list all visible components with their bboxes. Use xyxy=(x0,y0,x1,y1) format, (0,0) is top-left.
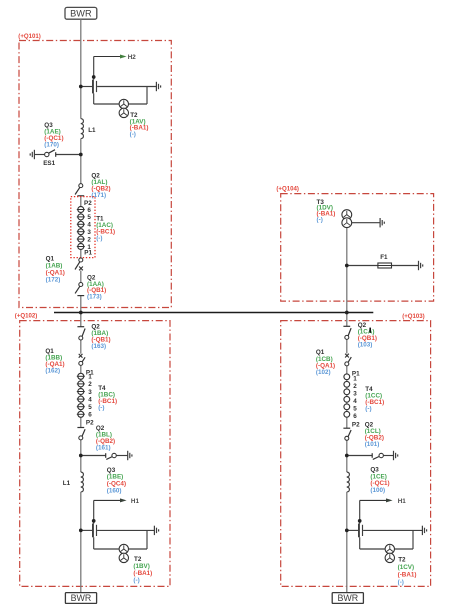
disconnector Q2 (+Q102 upper) circle xyxy=(79,336,83,340)
ground (+Q103 surge branch) xyxy=(422,526,426,535)
svg-text:3: 3 xyxy=(87,229,91,236)
wire +Q101 capacitor to ground xyxy=(97,86,156,88)
earthing switch Q3 (+Q103) wire xyxy=(347,455,372,457)
disconnector Q2 (+Q102 upper) blade xyxy=(82,329,85,337)
svg-text:(-): (-) xyxy=(398,579,404,586)
svg-text:P2: P2 xyxy=(352,421,360,428)
capacitor C (+Q101) thick plate xyxy=(92,80,94,94)
capacitor C (+Q103) thick plate xyxy=(358,524,360,538)
svg-text:(-): (-) xyxy=(133,577,139,584)
wire +Q102 T2 loop left xyxy=(93,537,95,549)
svg-text:(101): (101) xyxy=(365,441,380,448)
earthing switch Q3 (+Q103) tick xyxy=(371,453,373,458)
wire +Q101 T2 loop bottom xyxy=(94,103,147,105)
svg-text:5: 5 xyxy=(88,404,92,411)
svg-text:H2: H2 xyxy=(128,54,137,61)
svg-text:4: 4 xyxy=(88,396,92,403)
junction Q3 node (+Q103) xyxy=(345,454,349,458)
junction +Q101 capacitor node xyxy=(79,85,83,89)
junction bus / left feeder xyxy=(79,311,83,315)
ground (F1) xyxy=(419,261,423,270)
wire left feeder (+Q102 Q2 circle to X) xyxy=(80,338,82,354)
signal arrow H2 xyxy=(94,56,120,58)
svg-text:(-): (-) xyxy=(365,406,371,413)
ground (ES1) xyxy=(30,150,34,159)
svg-text:P2: P2 xyxy=(86,420,94,427)
junction ES1 node xyxy=(79,153,83,157)
wire +Q101 T2 loop left xyxy=(93,93,95,104)
wire +Q103 signal tap vertical xyxy=(359,500,361,523)
svg-text:(1CV): (1CV) xyxy=(398,564,414,571)
earthing switch ES1 contact tick xyxy=(55,152,57,157)
node BWR (bottom right) xyxy=(332,593,363,604)
ground (Q3 +Q102) xyxy=(128,451,132,460)
wire Q3 to ground (+Q103) xyxy=(383,455,393,457)
svg-text:6: 6 xyxy=(353,413,357,420)
svg-text:(171): (171) xyxy=(91,192,106,199)
disconnector Q2 (+Q103 upper) circle xyxy=(345,335,349,339)
wire +Q102 capacitor feed xyxy=(81,529,92,531)
svg-text:ES1: ES1 xyxy=(43,160,55,167)
wire +Q101 signal tap vertical xyxy=(93,57,95,80)
svg-text:5: 5 xyxy=(353,405,357,412)
junction +Q101 tap node xyxy=(92,75,96,79)
disconnector Q2 (+Q103 upper) blade xyxy=(348,328,351,336)
transformer T2 (+Q103) upper winding xyxy=(385,544,394,553)
junction +Q102 capacitor node xyxy=(79,529,83,533)
wire +Q102 T2 loop right xyxy=(146,530,148,549)
svg-text:(160): (160) xyxy=(107,487,122,494)
earthing switch ES1 pivot circle xyxy=(45,152,49,156)
svg-text:(-): (-) xyxy=(96,235,102,242)
ground (+Q101 surge branch) xyxy=(156,82,160,91)
tap circle T4 pin 3 (+Q103) xyxy=(344,389,350,395)
fuse F1 element line xyxy=(378,265,392,267)
svg-text:(+Q104): (+Q104) xyxy=(276,185,299,192)
svg-text:1: 1 xyxy=(353,375,357,382)
tap circle T1 pin 5 xyxy=(78,214,84,220)
ground (T3) xyxy=(380,218,384,227)
tap circle T4 pin 2 (+Q103) xyxy=(344,381,350,387)
svg-text:(103): (103) xyxy=(358,342,373,349)
wire right feeder (T3 to bus) xyxy=(346,227,348,326)
zone box +Q103 xyxy=(281,321,431,587)
earthing switch Q3 (+Q102) blade xyxy=(106,457,112,460)
svg-text:L1: L1 xyxy=(63,480,71,487)
svg-text:2: 2 xyxy=(88,381,92,388)
wire +Q102 capacitor to ground xyxy=(97,529,154,531)
wire +Q103 T2 loop left xyxy=(359,537,361,549)
svg-text:2: 2 xyxy=(353,383,357,390)
wire left feeder (Q1 X to Q2) xyxy=(80,271,82,285)
zone box +Q101 xyxy=(19,41,171,308)
disconnector Q2 (+Q103 upper) terminal xyxy=(343,325,350,327)
svg-text:4: 4 xyxy=(353,398,357,405)
capacitor C (+Q103) thin plate xyxy=(362,525,364,536)
junction F1 node xyxy=(345,264,349,268)
transformer T2 (+Q101) lower winding xyxy=(119,108,128,117)
zone box +Q102 xyxy=(20,321,170,587)
junction Q3 node (+Q102) xyxy=(79,454,83,458)
wire +Q103 capacitor to ground xyxy=(363,529,422,531)
circuit breaker Q1 (+Q102) blade xyxy=(82,357,85,362)
tap circle T4 pin 1 (+Q102) xyxy=(78,373,84,379)
junction +Q103 tap node xyxy=(358,519,362,523)
tap circle T4 pin 6 (+Q103) xyxy=(344,411,350,417)
svg-text:6: 6 xyxy=(87,207,91,214)
svg-text:5: 5 xyxy=(87,214,91,221)
disconnector Q2 (+Q101 lower) circle xyxy=(79,283,83,287)
svg-text:(-): (-) xyxy=(98,405,104,412)
circuit breaker Q1 (+Q102) X contact xyxy=(79,354,83,358)
disconnector Q2 (+Q102 lower) circle xyxy=(79,436,83,440)
svg-text:(163): (163) xyxy=(91,343,106,350)
svg-text:2: 2 xyxy=(87,236,91,243)
wire +Q103 T2 loop right xyxy=(412,530,414,549)
tap circle T4 pin 5 (+Q102) xyxy=(78,404,84,410)
ground (+Q102 surge branch) xyxy=(154,526,158,535)
transformer T2 (+Q101) upper winding xyxy=(119,99,128,108)
transformer T3 upper winding xyxy=(342,210,352,220)
tap circle T4 pin 6 (+Q102) xyxy=(78,411,84,417)
inductor L1 (+Q102) xyxy=(81,472,84,492)
earthing switch Q3 (+Q103) circle xyxy=(379,453,383,457)
signal arrow H1 xyxy=(94,499,120,501)
svg-text:(+Q101): (+Q101) xyxy=(18,33,41,40)
earthing switch Q3 (+Q102) tick xyxy=(105,453,107,458)
wire +Q102 signal tap vertical xyxy=(93,500,95,523)
disconnector Q2 (+Q103 lower) terminal xyxy=(343,427,350,429)
svg-text:1: 1 xyxy=(87,244,91,251)
wire left feeder (Q2 to bus and +Q102 Q2) xyxy=(80,296,82,327)
plug box P2/P1 (dotted) xyxy=(71,197,95,258)
svg-text:3: 3 xyxy=(88,389,92,396)
svg-text:H1: H1 xyxy=(398,498,407,505)
circuit breaker Q1 (+Q101) circle xyxy=(79,258,83,262)
wire +Q103 T2 loop bottom xyxy=(360,548,413,550)
circuit breaker Q1 (+Q102) circle xyxy=(79,361,83,365)
svg-text:3: 3 xyxy=(353,390,357,397)
svg-text:H1: H1 xyxy=(131,498,140,505)
disconnector Q2 (+Q102 upper) terminal xyxy=(77,326,84,328)
wire right feeder (+Q103 Q2 circle to X) xyxy=(346,337,348,353)
svg-text:(172): (172) xyxy=(46,277,61,284)
disconnector Q2 (+Q101 lower) terminal xyxy=(77,295,84,297)
tap circle T1 pin 6 xyxy=(78,207,84,213)
svg-text:(-): (-) xyxy=(317,217,323,224)
circuit breaker Q1 (+Q101) X contact xyxy=(79,267,83,271)
junction +Q103 capacitor node xyxy=(345,529,349,533)
svg-text:1: 1 xyxy=(88,374,92,381)
tap circle T1 pin 1 xyxy=(78,244,84,250)
svg-text:(102): (102) xyxy=(316,369,331,376)
earthing switch ES1 blade xyxy=(49,150,55,154)
earthing switch ES1 wire from feeder xyxy=(56,154,81,156)
wire right feeder (+Q103 Q1 to winding and Q2) xyxy=(346,364,348,428)
wire left feeder (BWR to L1) xyxy=(80,19,82,118)
svg-text:4: 4 xyxy=(87,222,91,229)
svg-text:(-): (-) xyxy=(130,131,136,138)
node BWR (top) xyxy=(65,7,97,19)
transformer T2 (+Q102) upper winding xyxy=(119,544,128,553)
svg-text:BWR: BWR xyxy=(70,9,92,19)
disconnector Q2 (+Q103 lower) blade xyxy=(348,430,351,437)
wire left feeder (L1 to Q2) xyxy=(80,139,82,186)
node BWR (bottom left) xyxy=(65,593,96,604)
wire left feeder (+Q102 Q1 to winding and Q2) xyxy=(80,363,82,427)
tap circle T4 pin 1 (+Q103) xyxy=(344,374,350,380)
wire right feeder (coil to bottom BWR) xyxy=(346,492,348,593)
inductor L (+Q103) xyxy=(347,472,350,492)
wire +Q101 T2 loop right xyxy=(146,87,148,105)
svg-text:(-BA1): (-BA1) xyxy=(398,571,417,578)
disconnector Q2 (+Q101 upper) circle xyxy=(79,184,83,188)
wire left feeder (L1 to bottom BWR) xyxy=(80,492,82,593)
stray mark near (1CA) xyxy=(369,328,371,333)
svg-text:(1AB): (1AB) xyxy=(46,263,63,270)
transformer T2 (+Q102) lower winding xyxy=(119,553,128,562)
ground (Q3 +Q103) xyxy=(394,451,398,460)
wire +Q102 T2 loop bottom xyxy=(94,548,147,550)
svg-text:(+Q103): (+Q103) xyxy=(402,313,425,320)
svg-text:L1: L1 xyxy=(88,127,96,134)
junction +Q102 tap node xyxy=(92,519,96,523)
tap circle T4 pin 4 (+Q102) xyxy=(78,396,84,402)
inductor L1 (+Q101) xyxy=(81,119,84,139)
svg-text:T2: T2 xyxy=(398,556,406,563)
disconnector Q2 (+Q102 lower) blade xyxy=(82,429,85,436)
disconnector Q2 (+Q101 lower) blade xyxy=(75,286,80,293)
svg-text:F1: F1 xyxy=(380,254,388,261)
svg-text:T2: T2 xyxy=(134,556,142,563)
svg-text:(173): (173) xyxy=(87,294,102,301)
capacitor C (+Q102) thick plate xyxy=(92,524,94,538)
wire left feeder (Q2 to Q1) xyxy=(80,196,82,260)
svg-text:BWR: BWR xyxy=(337,593,358,603)
svg-text:(-QA1): (-QA1) xyxy=(46,270,65,277)
transformer T3 lower winding xyxy=(342,218,352,228)
tap circle T1 pin 3 xyxy=(78,229,84,235)
svg-text:(162): (162) xyxy=(45,367,60,374)
svg-text:(-BA1): (-BA1) xyxy=(133,570,152,577)
svg-text:(1BV): (1BV) xyxy=(133,563,149,570)
earthing switch Q3 (+Q103) blade xyxy=(373,457,379,460)
fuse F1 body xyxy=(378,263,392,268)
earthing switch Q3 (+Q102) wire xyxy=(81,455,106,457)
wire F1 branch xyxy=(347,265,419,267)
wire left feeder (+Q102 Q2 to L1 coil) xyxy=(80,438,82,472)
earthing switch Q3 (+Q102) circle xyxy=(112,453,116,457)
wire right feeder (+Q103 Q2 to coil) xyxy=(346,438,348,472)
tap circle T4 pin 2 (+Q102) xyxy=(78,381,84,387)
bus wire (horizontal tie) xyxy=(54,312,373,314)
capacitor C (+Q101) thin plate xyxy=(96,81,98,92)
tap circle T4 pin 3 (+Q102) xyxy=(78,389,84,395)
svg-text:(100): (100) xyxy=(370,487,385,494)
svg-text:(170): (170) xyxy=(44,142,59,149)
wire +Q101 capacitor feed xyxy=(81,86,92,88)
circuit breaker Q1 (+Q103) circle xyxy=(345,362,349,366)
circuit breaker Q1 (+Q103) X contact xyxy=(345,354,349,358)
disconnector Q2 (+Q103 lower) circle xyxy=(345,436,349,440)
wire Q3 to ground (+Q102) xyxy=(116,455,127,457)
svg-text:(+Q102): (+Q102) xyxy=(15,313,38,320)
circuit breaker Q1 (+Q103) blade xyxy=(348,357,351,362)
wire ES1 to ground xyxy=(34,154,44,156)
tap circle T4 pin 4 (+Q103) xyxy=(344,396,350,402)
disconnector Q2 (+Q102 lower) terminal xyxy=(77,427,84,429)
signal arrow H1 xyxy=(360,499,386,501)
disconnector Q2 (+Q101 upper) terminal xyxy=(77,195,84,197)
svg-text:(161): (161) xyxy=(96,444,111,451)
disconnector Q2 (+Q101 upper) blade xyxy=(75,187,80,194)
transformer T2 (+Q103) lower winding xyxy=(385,553,394,562)
tap circle T4 pin 5 (+Q103) xyxy=(344,404,350,410)
wire +Q103 capacitor feed xyxy=(347,529,358,531)
svg-text:Q1: Q1 xyxy=(46,256,55,263)
svg-text:6: 6 xyxy=(88,412,92,419)
tap circle T1 pin 4 xyxy=(78,221,84,227)
capacitor C (+Q102) thin plate xyxy=(96,525,98,536)
junction bus / right feeder xyxy=(345,311,349,315)
tap circle T1 pin 2 xyxy=(78,236,84,242)
wire T3 to ground xyxy=(352,222,380,224)
circuit breaker Q1 (+Q101) blade xyxy=(75,262,80,270)
svg-text:BWR: BWR xyxy=(71,593,92,603)
zone box +Q104 xyxy=(281,194,434,302)
